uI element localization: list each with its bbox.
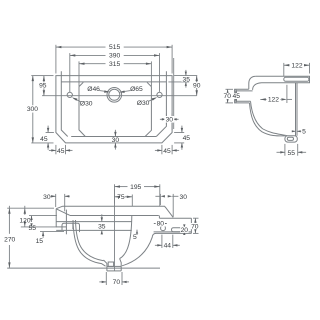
svg-text:195: 195 [130, 184, 141, 191]
sec bracket bottom [152, 233, 191, 237]
waste hole inner [109, 89, 120, 100]
svg-text:122: 122 [291, 62, 302, 69]
plan inner rim bottom [71, 136, 156, 138]
svg-text:315: 315 [109, 61, 120, 68]
svg-text:45: 45 [57, 148, 65, 155]
svg-text:30: 30 [179, 194, 187, 201]
side rim top [256, 76, 310, 83]
svg-text:20: 20 [181, 227, 189, 234]
dim 35 right top [174, 75, 197, 77]
svg-text:44: 44 [164, 243, 172, 250]
sec bowl inner [76, 220, 104, 261]
dim 5 (sec) [136, 230, 138, 234]
svg-text:70: 70 [191, 223, 199, 230]
dim 70 bottom (sec drain) [105, 272, 107, 285]
sec bottom plane [7, 267, 160, 269]
dim 35 (sec) [101, 214, 103, 221]
tap hole left [67, 92, 72, 97]
dim 45 bottom-right [161, 145, 163, 154]
svg-text:30: 30 [112, 137, 120, 144]
dim 45 right side [174, 132, 184, 134]
svg-text:35: 35 [182, 76, 190, 83]
svg-text:Ø46: Ø46 [87, 86, 100, 93]
sec deck line [70, 215, 159, 217]
svg-text:45: 45 [232, 93, 240, 100]
svg-text:300: 300 [27, 106, 38, 113]
side outlet foot outer [285, 136, 297, 142]
sec deck to bracket step [158, 216, 160, 219]
svg-text:122: 122 [268, 97, 279, 104]
side rim front curve outer [249, 76, 256, 89]
sec deck step diagonal left [56, 209, 70, 216]
sec bowl outer [73, 220, 106, 266]
sec overflow pocket [62, 223, 80, 232]
svg-text:70: 70 [223, 93, 231, 100]
svg-text:90: 90 [193, 82, 201, 89]
side rim front curve inner [253, 83, 262, 90]
dim 5 (side wall gap) [292, 130, 296, 132]
hole centerline [42, 95, 197, 97]
waste hole outer [107, 88, 122, 103]
dim 30 right (rim width) [165, 114, 167, 125]
svg-text:55: 55 [28, 225, 36, 232]
plan inner rim edge left [61, 71, 67, 136]
dim 195 (sec) [114, 184, 116, 203]
sec bracket top [159, 217, 191, 219]
dim 55 (side outlet) [284, 144, 286, 156]
svg-text:5: 5 [302, 128, 306, 135]
dim 515 [55, 45, 57, 74]
svg-text:30: 30 [166, 117, 174, 124]
dim 30 bottom (rim width) [114, 130, 116, 137]
side front tab inner [236, 91, 252, 101]
side outlet foot slot [287, 137, 293, 140]
svg-text:45: 45 [40, 136, 48, 143]
svg-text:30: 30 [43, 194, 51, 201]
svg-text:515: 515 [109, 44, 120, 51]
sec bracket slot A [161, 226, 166, 231]
side front tab outer [235, 89, 250, 103]
dim 75 (sec) [131, 195, 133, 207]
dim 390 [69, 53, 71, 92]
sec rim top edge [56, 206, 173, 217]
sec front face [55, 209, 57, 227]
plan inner rim top (deck back edge) [61, 81, 166, 83]
side bowl inner curve [251, 101, 288, 135]
sec front lines [56, 221, 132, 223]
svg-text:70: 70 [113, 279, 121, 286]
dim 95 left [42, 75, 54, 77]
dim 45 bottom-left [55, 145, 57, 154]
svg-text:5: 5 [133, 234, 137, 241]
dim 120 [21, 226, 57, 228]
plan outer outline (chamfered rectangle) [56, 76, 172, 143]
svg-text:95: 95 [39, 83, 47, 90]
dim 55 (sec) [29, 215, 57, 217]
dim 300 left [31, 142, 53, 144]
dim 44 (sec bracket) [161, 235, 163, 248]
sec centerline [114, 189, 116, 271]
svg-text:80: 80 [157, 221, 165, 228]
sec drain inner detail [108, 262, 113, 266]
dim 30 left (sec) [55, 194, 57, 207]
svg-text:45: 45 [163, 148, 171, 155]
dim 90 right [196, 76, 198, 96]
svg-text:75: 75 [117, 194, 125, 201]
bowl recess left corner chamfer [79, 82, 83, 86]
svg-text:390: 390 [109, 53, 120, 60]
dim 15 (sec) [40, 231, 64, 233]
dim 70 45 (side front tab) [226, 88, 234, 90]
svg-text:Ø30: Ø30 [80, 101, 93, 108]
dim 30 right (sec) [159, 194, 161, 205]
side bowl outer curve [250, 103, 285, 136]
svg-text:Ø30: Ø30 [137, 100, 150, 107]
sec drain funnel [104, 260, 107, 271]
bowl recess right side [145, 87, 151, 137]
dim 122 top (side) [283, 63, 285, 77]
svg-text:45: 45 [183, 135, 191, 142]
svg-text:120: 120 [19, 218, 30, 225]
sec overflow inner [72, 223, 74, 229]
sec bracket slot B [172, 228, 182, 232]
dim 270 [7, 207, 54, 209]
right extension line [173, 58, 175, 129]
side fixing slot [284, 77, 309, 81]
bowl recess right corner chamfer [147, 82, 151, 86]
bowl recess left side [79, 87, 85, 137]
dim 70 right (sec bracket) [193, 217, 199, 219]
svg-text:55: 55 [287, 150, 295, 157]
plan inner rim edge right [156, 71, 166, 136]
svg-text:270: 270 [4, 237, 15, 244]
side wall line [296, 83, 298, 136]
svg-text:Ø65: Ø65 [130, 86, 143, 93]
side basin back line [295, 83, 297, 136]
sec front tab back line [65, 210, 67, 235]
svg-text:35: 35 [98, 223, 106, 230]
tap hole right [157, 92, 162, 97]
svg-text:15: 15 [36, 238, 44, 245]
sec bracket inner bottom line [154, 231, 192, 233]
dim 45 left side [46, 132, 54, 134]
dim 315 [78, 61, 80, 86]
dim 80 (sec bracket) [154, 223, 167, 225]
dim 122 middle (side) [286, 85, 288, 103]
sec bracket right [190, 218, 192, 233]
dim 20 (sec bracket) [183, 224, 185, 227]
